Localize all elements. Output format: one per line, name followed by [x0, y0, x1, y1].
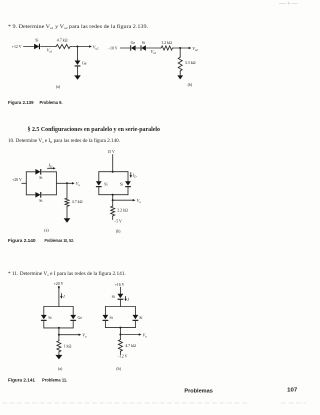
svg-text:Si: Si	[120, 182, 123, 186]
diode D5 Si	[35, 169, 42, 180]
subfigure label (a)	[58, 367, 63, 371]
caption figura 2.140	[8, 238, 74, 243]
section heading 2.5	[28, 126, 161, 133]
problem 9 statement	[8, 23, 148, 30]
svg-text:Ge: Ge	[82, 62, 87, 66]
wire junction down to resistor	[179, 48, 181, 57]
svg-text:2.2 kΩ: 2.2 kΩ	[117, 209, 128, 213]
wire bottom rail	[44, 327, 73, 329]
node -12 V supply	[118, 355, 128, 359]
svg-text:4.7 kΩ: 4.7 kΩ	[72, 200, 83, 204]
subfigure label (b)	[116, 367, 121, 371]
subfigure label (b)	[116, 229, 121, 233]
subfigure label (b)	[188, 83, 193, 87]
current label I	[124, 296, 129, 302]
svg-text:Figura 2.139: Figura 2.139	[8, 100, 34, 105]
wire to output Vo2	[78, 44, 99, 50]
wire down to output junction	[112, 195, 114, 201]
svg-text:+16 V: +16 V	[115, 283, 125, 287]
svg-text:−10 V: −10 V	[108, 46, 118, 50]
svg-text:107: 107	[287, 388, 297, 394]
diode D10 Ge	[70, 315, 82, 321]
svg-text:Si: Si	[35, 38, 38, 42]
wire right rail lower	[127, 187, 129, 194]
svg-text:Problema 9.: Problema 9.	[40, 100, 63, 105]
diode D2 Ge	[75, 61, 87, 67]
wire resistor to ground	[179, 72, 181, 76]
wire supply to diode	[119, 287, 121, 294]
resistor 1.2 kOhm	[160, 41, 173, 50]
svg-text:+12 V: +12 V	[12, 45, 22, 49]
svg-text:Problemas 10, 52.: Problemas 10, 52.	[45, 238, 75, 243]
wire right rail	[55, 172, 57, 195]
svg-text:(a): (a)	[58, 367, 63, 371]
resistor 4.7 kOhm	[55, 38, 71, 48]
wire supply down to top rail	[112, 155, 114, 172]
wire down to output junction	[58, 328, 60, 335]
svg-text:−5 V: −5 V	[114, 219, 122, 223]
diode D11 Si	[112, 294, 124, 300]
svg-text:Problemas: Problemas	[184, 389, 213, 395]
svg-text:1 kΩ: 1 kΩ	[64, 345, 72, 349]
node 15 V supply	[107, 150, 115, 154]
wire top rail	[105, 306, 135, 308]
ground	[64, 218, 71, 222]
junction bottom rail	[119, 327, 121, 329]
diode D9 Si	[41, 315, 52, 321]
wire to output Vo	[67, 181, 80, 187]
problem 11 statement	[8, 270, 126, 277]
svg-text:Si: Si	[139, 316, 142, 320]
wire supply to left rail	[22, 182, 27, 184]
svg-text:Ge: Ge	[131, 41, 136, 45]
svg-text:Figura 2.140: Figura 2.140	[8, 238, 36, 243]
wire right rail lower	[134, 321, 136, 328]
junction top rail	[112, 171, 114, 173]
svg-text:(b): (b)	[116, 367, 121, 371]
svg-text:1.2 kΩ: 1.2 kΩ	[161, 41, 172, 45]
wire top rail left	[26, 171, 35, 173]
node +12 V supply	[12, 45, 22, 49]
diode D1 Si	[34, 38, 40, 49]
wire bottom rail	[99, 194, 128, 196]
junction node Vo	[58, 334, 60, 336]
ground	[55, 355, 62, 360]
wire to output Vo2	[180, 46, 198, 52]
svg-text:3.3 kΩ: 3.3 kΩ	[185, 61, 196, 65]
resistor 3.3 kOhm	[178, 57, 195, 72]
svg-text:I: I	[126, 297, 129, 302]
node +16 V supply	[115, 283, 125, 287]
subfigure label (a)	[56, 85, 61, 89]
wire resistor to junction	[71, 46, 78, 48]
svg-text:Ge: Ge	[78, 316, 83, 320]
subfigure label (a)	[44, 228, 49, 232]
junction node Vo	[119, 334, 121, 336]
svg-text:Si: Si	[39, 176, 42, 180]
wire junction to resistor	[112, 200, 114, 205]
current label ID	[130, 172, 138, 178]
wire to output Vo	[59, 333, 87, 339]
svg-text:(a): (a)	[44, 228, 49, 232]
wire junction down to diode Ge	[77, 47, 79, 61]
svg-text:Vo: Vo	[137, 198, 142, 204]
svg-text:Vo: Vo	[76, 181, 81, 187]
wire resistor to -5 V	[112, 217, 114, 220]
wire resistor to ground	[66, 207, 68, 218]
svg-text:Vo: Vo	[143, 332, 148, 338]
junction bottom rail	[112, 194, 114, 196]
svg-text:Vo1: Vo1	[47, 48, 53, 54]
top-right printer mark	[279, 2, 298, 4]
diode D3 Ge	[130, 41, 135, 51]
caption figura 2.139	[8, 100, 63, 105]
resistor 4.7 kOhm	[65, 198, 83, 207]
svg-text:* 9. Determine Vo1 y Vo2 para: * 9. Determine Vo1 y Vo2 para las redes …	[8, 23, 148, 30]
node +20 V supply	[54, 282, 64, 286]
svg-text:+20 V: +20 V	[12, 178, 22, 182]
wire right rail upper	[72, 307, 74, 315]
wire resistor to junction	[173, 47, 180, 49]
wire from +12 V to diode Si	[24, 46, 35, 48]
bottom scan edge dashed line	[2, 402, 306, 404]
svg-text:Si: Si	[110, 316, 113, 320]
svg-text:§ 2.5 Configuraciones en paral: § 2.5 Configuraciones en paralelo y en s…	[28, 126, 161, 133]
svg-text:Problema 11.: Problema 11.	[42, 377, 67, 382]
wire between diodes	[136, 47, 140, 49]
footer running head Problemas	[184, 389, 213, 395]
wire to output Vo	[113, 198, 142, 204]
svg-text:−12 V: −12 V	[118, 355, 128, 359]
diode D12 Si	[103, 315, 113, 321]
svg-text:Si: Si	[104, 182, 107, 186]
wire top rail	[44, 306, 73, 308]
current label ID	[48, 163, 56, 170]
wire diode to top rail	[119, 300, 121, 307]
svg-text:(b): (b)	[116, 229, 121, 233]
resistor 2.2 kOhm	[111, 206, 128, 217]
svg-text:Si: Si	[142, 41, 145, 45]
wire down to output junction	[119, 328, 121, 335]
wire bottom rail	[105, 327, 135, 329]
wire right rail upper	[127, 172, 129, 182]
current label I	[60, 294, 65, 300]
junction bottom rail	[58, 327, 60, 329]
wire left rail upper	[104, 307, 106, 315]
wire left rail upper	[43, 307, 45, 315]
wire left rail lower	[104, 321, 106, 328]
wire bottom rail right	[42, 194, 57, 196]
wire junction down to resistor	[66, 183, 68, 197]
svg-text:+20 V: +20 V	[54, 282, 64, 286]
wire top rail	[99, 171, 128, 173]
wire junction to resistor	[58, 335, 60, 340]
caption figura 2.141	[8, 377, 67, 382]
node -5 V supply	[114, 219, 122, 223]
wire left rail lower	[98, 187, 100, 194]
wire resistor to ground	[58, 353, 60, 355]
svg-text:(b): (b)	[188, 83, 193, 87]
wire supply down with current arrow	[58, 286, 60, 306]
wire left rail	[25, 172, 27, 195]
wire diode to ground	[77, 67, 79, 76]
wire right rail to junction	[56, 182, 67, 184]
footer page number 107	[287, 388, 297, 394]
node +20 V supply	[12, 178, 22, 182]
diode D4 Si	[141, 41, 146, 51]
svg-text:Si: Si	[48, 316, 51, 320]
wire left rail upper	[98, 172, 100, 182]
svg-text:* 11. Determine Vo e I para la: * 11. Determine Vo e I para las redes de…	[8, 270, 126, 277]
junction node Vo	[112, 199, 114, 201]
junction node	[66, 182, 68, 184]
diode D13 Si	[133, 315, 143, 321]
svg-text:Vo2: Vo2	[93, 44, 99, 50]
svg-text:15 V: 15 V	[107, 150, 115, 154]
wire right rail upper	[134, 307, 136, 315]
svg-text:Vo: Vo	[82, 333, 87, 339]
svg-text:Vo1: Vo1	[151, 49, 157, 55]
svg-text:ID: ID	[132, 172, 137, 178]
svg-text:10. Determine Vo e ID para las: 10. Determine Vo e ID para las redes de …	[8, 137, 120, 144]
svg-text:Si: Si	[112, 295, 115, 299]
node -10 V supply	[108, 46, 118, 50]
diode D7 Si	[96, 181, 108, 187]
diode D8 Si	[120, 181, 131, 187]
svg-text:ID: ID	[48, 163, 53, 169]
svg-text:4.7 kΩ: 4.7 kΩ	[125, 344, 136, 348]
wire resistor to -12 V	[119, 352, 121, 355]
resistor 1 kOhm	[57, 340, 72, 352]
junction node	[77, 46, 79, 48]
ground	[177, 75, 183, 79]
diode D6 Si	[35, 192, 42, 203]
wire junction to resistor	[119, 335, 121, 339]
wire left rail lower	[43, 321, 45, 328]
junction node	[179, 47, 181, 49]
problem 10 statement	[8, 137, 120, 144]
svg-text:Si: Si	[39, 199, 42, 203]
svg-text:I: I	[62, 294, 65, 299]
resistor 4.7 kOhm	[118, 339, 136, 352]
wire diode to resistor, node Vo1	[41, 47, 56, 54]
wire bottom rail left	[26, 194, 35, 196]
svg-text:(a): (a)	[56, 85, 61, 89]
svg-text:Vo2: Vo2	[192, 46, 198, 52]
svg-text:4.7 kΩ: 4.7 kΩ	[57, 38, 68, 42]
wire from -10 V to diode Ge	[120, 47, 130, 49]
svg-text:Figura 2.141: Figura 2.141	[8, 377, 35, 382]
wire top rail right	[42, 171, 57, 173]
wire diode to resistor, node Vo1	[146, 48, 160, 55]
wire to output Vo	[120, 332, 147, 338]
ground	[74, 75, 81, 79]
wire right rail lower	[72, 321, 74, 328]
